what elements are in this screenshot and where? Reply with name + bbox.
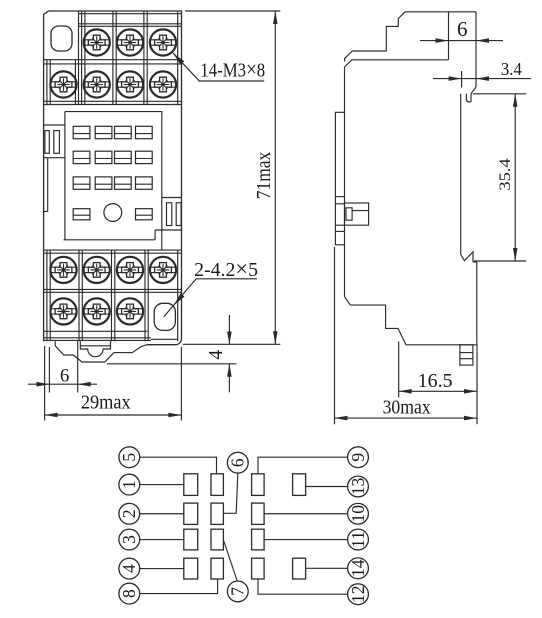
svg-text:30max: 30max: [383, 398, 431, 419]
svg-text:16.5: 16.5: [418, 371, 453, 392]
side view left retaining skin: [335, 112, 344, 245]
left latch recess: [44, 124, 65, 126]
front bottom center clip with semicircle notch: [80, 341, 110, 356]
top block vertical cell dividers: [81, 11, 83, 105]
side view right wall: [475, 12, 477, 87]
dimension 35.4: [473, 93, 526, 95]
svg-text:14-M3×8: 14-M3×8: [200, 56, 265, 81]
svg-text:10: 10: [348, 505, 368, 523]
side view roof: [345, 60, 449, 67]
wire 14 to D4: [306, 567, 348, 569]
wire 4 to A4: [140, 568, 184, 570]
top-left oval mounting slot: [51, 26, 72, 51]
svg-text:9: 9: [348, 453, 368, 462]
side view bottom profile: [345, 297, 477, 345]
terminal circle 12: [348, 584, 369, 605]
dimension 4: [107, 363, 237, 365]
contact boxes column C: [252, 474, 265, 496]
svg-text:4: 4: [119, 564, 139, 573]
bottom block vertical cell dividers: [46, 250, 48, 341]
terminal circle 14: [348, 558, 369, 579]
dimension 30max: [334, 247, 336, 424]
front view left edge: [43, 15, 45, 342]
contact boxes column B: [211, 474, 223, 496]
side view latch block: [345, 203, 369, 225]
side view top profile staircase: [345, 12, 476, 62]
svg-text:8: 8: [119, 589, 139, 598]
svg-text:2-4.2×5: 2-4.2×5: [194, 256, 258, 281]
wire 13 to D1: [306, 486, 348, 488]
wire 9 to C1: [258, 457, 348, 474]
front bottom mounting tabs outline: [55, 341, 147, 362]
terminal circle 4: [119, 558, 140, 579]
svg-text:3.4: 3.4: [501, 59, 522, 79]
center relay panel outline: [65, 112, 162, 251]
contact boxes column D (rows 1 and 4): [293, 474, 306, 496]
terminal circle 3: [119, 529, 140, 550]
wire 11 to C3: [264, 539, 348, 541]
svg-text:29max: 29max: [81, 392, 131, 413]
wire 5 to B1: [140, 457, 217, 474]
bottom foot block: [460, 345, 473, 365]
dimension 29max: [44, 346, 46, 421]
wire 10 to C2: [264, 513, 348, 515]
terminal circle 1: [119, 474, 140, 495]
svg-text:5: 5: [119, 453, 139, 462]
terminal circle 11: [348, 529, 369, 550]
svg-text:6: 6: [457, 17, 468, 41]
leader 14-M3x8: [173, 53, 264, 81]
svg-text:11: 11: [348, 531, 368, 548]
dimension 6 (front): [48, 347, 50, 393]
wire 12 to C4: [258, 579, 348, 594]
top terminal block horizontal lines: [79, 13, 182, 15]
dimension 16.5: [398, 342, 400, 398]
wire 6 to B2: [223, 473, 237, 513]
svg-text:7: 7: [228, 587, 248, 596]
leader 2-4.2x5: [196, 278, 257, 280]
terminal circle 13: [348, 476, 369, 497]
top terminal block outline: [78, 11, 80, 105]
svg-text:6: 6: [228, 458, 248, 467]
svg-text:35.4: 35.4: [497, 158, 514, 191]
panel center hole: [104, 204, 122, 222]
svg-text:13: 13: [348, 478, 368, 496]
relay contact slots: [73, 126, 90, 138]
screw terminals, 14-M3x8: [84, 29, 110, 55]
terminal circle 6: [227, 452, 248, 473]
terminal circle 5: [119, 447, 140, 468]
svg-text:3: 3: [119, 535, 139, 544]
terminal circle 9: [348, 447, 369, 468]
bottom terminal block horizontal lines: [44, 249, 182, 251]
terminal circle 10: [348, 503, 369, 524]
terminal circle 8: [119, 583, 140, 604]
terminal circle 2: [119, 503, 140, 524]
bottom-right oval mounting slot, 2-4.2x5: [154, 303, 175, 330]
wire 2 to A2: [140, 513, 184, 515]
DIN rail surface and claws: [460, 94, 462, 255]
wire 7 to B3: [224, 541, 237, 581]
dimension 6 (side): [420, 40, 503, 42]
side view left wall: [344, 66, 346, 296]
svg-text:12: 12: [348, 585, 368, 603]
contact boxes column A: [184, 474, 198, 496]
svg-text:4: 4: [206, 350, 227, 360]
terminal circle 7: [227, 581, 248, 602]
svg-text:2: 2: [119, 509, 139, 518]
svg-text:1: 1: [119, 480, 139, 489]
top block row2 left cell dividers: [46, 60, 48, 105]
svg-text:71max: 71max: [254, 152, 275, 200]
wire 3 to A3: [140, 539, 184, 541]
right latch recess bars: [167, 203, 172, 226]
svg-text:14: 14: [348, 559, 368, 577]
wire 8 to B4: [140, 579, 218, 594]
wire 1 to A1: [140, 484, 184, 486]
front view: relay socket body outline: [44, 11, 182, 345]
dimension 3.4: [461, 71, 463, 88]
dimension 71max: [185, 10, 280, 12]
svg-text:6: 6: [60, 365, 70, 386]
